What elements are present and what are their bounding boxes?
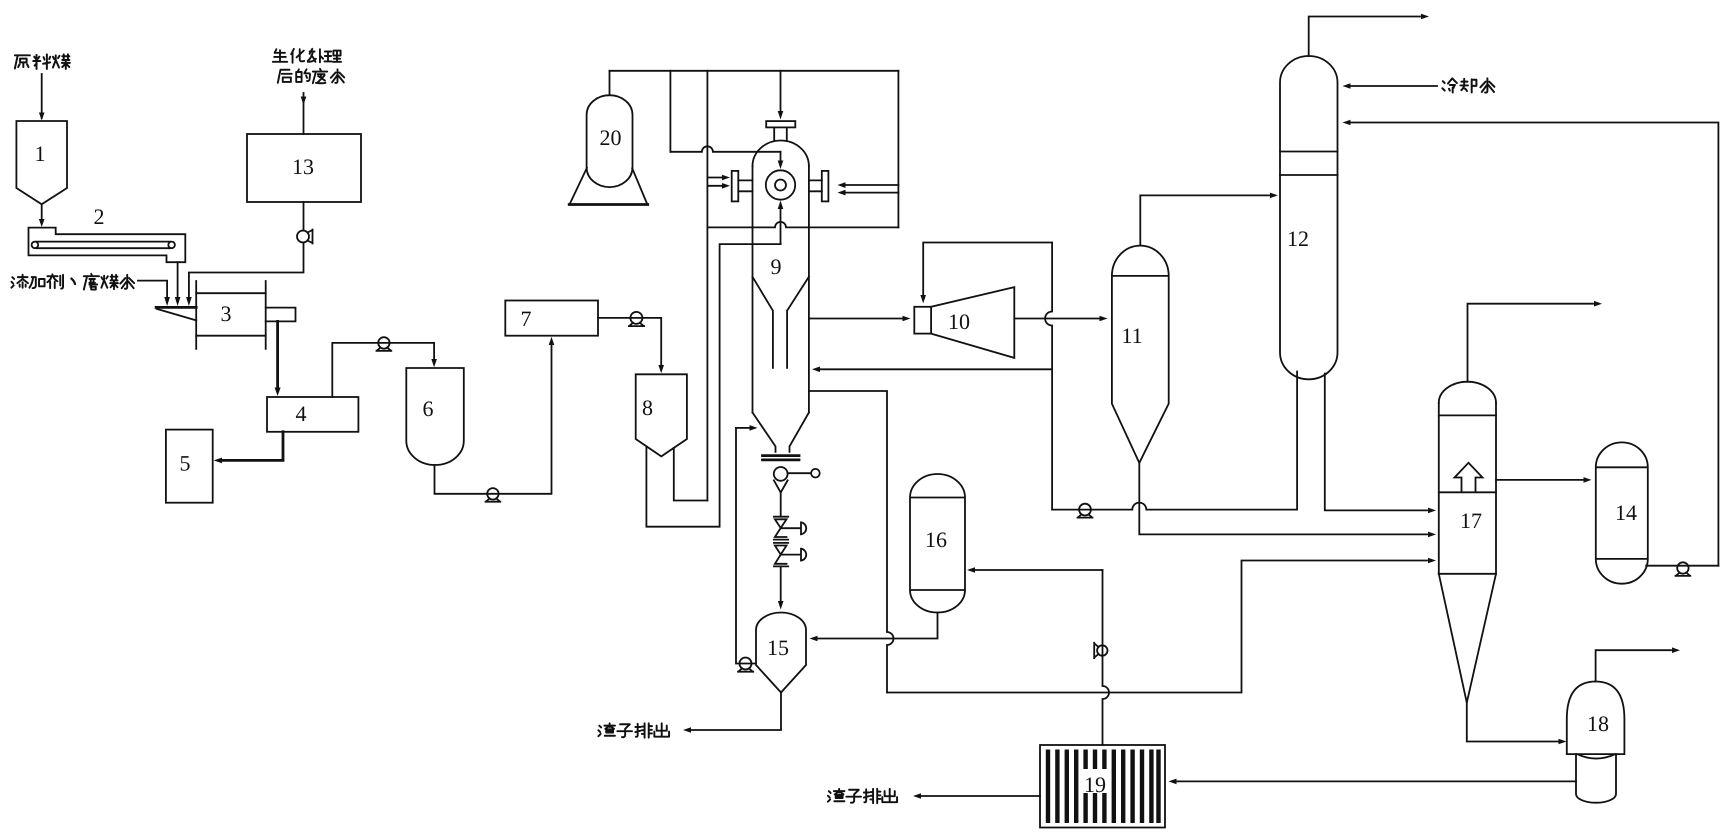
- svg-text:2: 2: [94, 204, 105, 229]
- wire: tank 7 to pump to vessel 8: [598, 318, 661, 365]
- separator 11: [1112, 246, 1169, 463]
- arrow up into burner from below: [778, 201, 784, 210]
- turbine 10 body: [931, 287, 1014, 358]
- gasifier 9 dome: [753, 141, 809, 167]
- pump between 7 and 8: [629, 312, 644, 326]
- conveyor belt lines: [37, 242, 171, 249]
- arrow into gasifier cone: [750, 425, 758, 431]
- vessel 18 dome: [1567, 682, 1625, 759]
- svg-text:16: 16: [925, 527, 947, 552]
- arrow return into 12: [1343, 120, 1351, 126]
- lock hopper 15: [756, 613, 806, 693]
- pump below tank 13: [297, 230, 313, 244]
- pump left of 15: [738, 658, 753, 672]
- wire: raw coal feed line: [41, 74, 43, 118]
- arrow into turbine inlet: [903, 316, 911, 322]
- wire: return line to gasifier: [820, 368, 1052, 370]
- arrow into vessel 14: [1584, 477, 1592, 483]
- arrow into right flange upper: [838, 182, 846, 188]
- arrow into 15 right wall: [810, 636, 818, 642]
- wire: recycle vertical with hop: [1045, 243, 1052, 510]
- wire: vessel 8 right outlet loop up: [674, 448, 708, 501]
- slag valve 1: [774, 517, 806, 540]
- wire: vessel 14 bottom to pump to riser: [1646, 565, 1718, 567]
- column 17 cone: [1439, 574, 1496, 703]
- burner circle outer: [766, 170, 795, 199]
- wire: syngas line gasifier to turbine 10: [809, 318, 902, 320]
- arrow 17 top right: [1594, 301, 1602, 307]
- wire: vessel 20 to top header: [609, 71, 611, 95]
- wire: return from pump 14 up and into 12: [1351, 123, 1718, 566]
- arrow into left flange upper: [722, 175, 730, 181]
- pump on line below 11: [1078, 504, 1093, 518]
- mill 3 end plate right: [265, 281, 267, 349]
- gasifier 9 top flange: [766, 121, 795, 127]
- vessel 18 lower drum: [1576, 754, 1616, 803]
- column 12 tray lines: [1280, 152, 1338, 176]
- wire: burner bottom line down with hop crossing: [780, 207, 782, 244]
- hopper 1: [16, 121, 67, 204]
- wire: bottom transfer line with hop, to riser: [887, 561, 1427, 693]
- arrow into gasifier right wall: [812, 367, 820, 373]
- arrow onto conveyor 2: [39, 219, 45, 227]
- arrow filter slag discharge: [913, 793, 921, 799]
- arrow into lock hopper 15: [778, 601, 784, 610]
- svg-text:8: 8: [642, 395, 653, 420]
- gasifier 9 flange stem: [774, 127, 787, 140]
- svg-text:1: 1: [35, 141, 46, 166]
- wire: column 17 top offgas: [1468, 304, 1594, 382]
- arrow slag discharge left: [683, 727, 691, 733]
- wire: mill 3 to tank 4: [276, 321, 279, 388]
- wire: stub to indicator circle: [788, 472, 812, 474]
- vessel 20: [587, 95, 633, 187]
- chute feed plate: [156, 306, 196, 309]
- arrow up into tank 7: [549, 337, 555, 345]
- gasifier right nozzle: [809, 180, 822, 191]
- chute slant: [157, 309, 196, 321]
- wire: vessel 8 left outlet loop up: [646, 244, 780, 527]
- wire: conveyor discharge: [177, 262, 179, 297]
- gasifier bottom flange: [763, 456, 800, 460]
- wire: separator 11 top to column 12: [1140, 195, 1269, 245]
- svg-text:10: 10: [948, 309, 970, 334]
- wire: stub into gasifier cone: [736, 427, 749, 429]
- wire: tank 4 to pump to vessel 6: [332, 343, 434, 397]
- wire: oxygen line with hop over vertical: [670, 146, 780, 151]
- filter 19: [1040, 745, 1165, 828]
- wire: waste water line from pump 13 to chute: [189, 243, 304, 298]
- wire: 16 bottom to lock hopper 15 with hop: [818, 613, 938, 639]
- label: cooling water 冷却水: [1442, 78, 1494, 92]
- indicator small circle: [811, 469, 820, 478]
- wire: cooling water line: [1351, 85, 1437, 87]
- wire: vessel 18 to filter 19: [1177, 780, 1576, 782]
- wire: hopper outlet: [41, 204, 43, 219]
- arrow below label: [301, 97, 307, 106]
- label: slag discharge 渣子排出: [598, 723, 669, 737]
- wire: separator 11 bottom leg: [1139, 463, 1427, 535]
- vessel 14: [1596, 442, 1648, 583]
- arrow into right flange lower: [838, 190, 846, 196]
- tank 7: [505, 301, 598, 336]
- check pump on riser: [1094, 643, 1107, 658]
- arrow into 16: [967, 567, 975, 573]
- label: 后的废水: [278, 69, 344, 83]
- svg-text:12: 12: [1287, 226, 1309, 251]
- arrow vent right: [1421, 14, 1429, 20]
- wire: header drop to top flange: [780, 71, 782, 111]
- svg-text:4: 4: [296, 401, 307, 426]
- label: raw coal 原料煤: [15, 54, 70, 69]
- wire: tank 4 to tank 5: [222, 432, 283, 461]
- svg-text:7: 7: [521, 306, 532, 331]
- arrow down to burner circle: [778, 161, 784, 170]
- label: slag discharge 渣子排出 (filter): [828, 789, 897, 803]
- wire: column 17 side to vessel 14: [1496, 479, 1583, 481]
- wire: slag line to lock hopper 15: [780, 566, 782, 601]
- arrow onto top flange: [778, 111, 784, 120]
- label 19: [1082, 769, 1108, 797]
- wire: stub to left flange upper: [707, 177, 722, 179]
- conveyor roller left: [32, 242, 39, 249]
- pump right of 14: [1676, 562, 1691, 576]
- burner circle inner: [775, 180, 786, 191]
- arrow into separator 11: [1100, 316, 1108, 322]
- arrow into tank 5: [214, 458, 222, 464]
- arrow vent right of 18: [1672, 647, 1680, 653]
- gasifier left nozzle: [738, 180, 752, 191]
- wire: waste water into tank 13: [303, 93, 305, 134]
- svg-text:9: 9: [771, 254, 782, 279]
- wire: stub to right flange upper: [846, 184, 898, 186]
- svg-text:15: 15: [767, 635, 789, 660]
- wire: column 12 bottom outlet left: [1296, 372, 1298, 509]
- wire: feed line down left of gasifier: [736, 428, 756, 664]
- svg-text:11: 11: [1121, 323, 1142, 348]
- tank 4: [267, 397, 358, 432]
- gasifier internal venturi: [753, 277, 809, 368]
- gasifier left flange bar: [732, 171, 739, 202]
- wire: column 12 bottom outlet right: [1325, 374, 1427, 511]
- wire: turbine bypass top: [923, 243, 1052, 296]
- mill 3 outlet box: [266, 308, 296, 322]
- column 12: [1280, 56, 1338, 379]
- column 17 internal lines: [1439, 415, 1496, 573]
- arrow into vessel 18: [1559, 739, 1567, 745]
- gasifier 9 shell: [753, 166, 809, 412]
- arrow into vessel 8: [658, 365, 664, 373]
- arrow into hopper 1: [39, 113, 45, 121]
- wire: line into 16 from riser: [975, 569, 1103, 571]
- wire: stub to left flange lower: [707, 185, 722, 187]
- wire: top header: [610, 70, 899, 72]
- vessel 6: [406, 368, 464, 465]
- arrow: waste water onto chute: [186, 297, 192, 306]
- conveyor 2 housing: [29, 228, 186, 263]
- vessel 8: [636, 374, 687, 456]
- mill 3 end plate left: [195, 281, 197, 349]
- svg-text:3: 3: [221, 301, 232, 326]
- arrow onto turbine inlet top: [920, 295, 926, 303]
- svg-text:19: 19: [1084, 772, 1106, 797]
- wire: vessel 6 to pump to tank 7: [435, 345, 552, 494]
- wire: filter 19 slag discharge: [921, 795, 1040, 797]
- wire: oxygen down to burner: [780, 152, 782, 160]
- wire: column 17 bottom to vessel 18: [1467, 703, 1558, 742]
- column 17 shell: [1439, 403, 1496, 574]
- arrow into vessel 6: [431, 359, 437, 367]
- wire: cross line under burner with hop: [707, 222, 898, 227]
- arrow into left flange lower: [722, 183, 730, 189]
- wire: riser down to filter 19: [1103, 570, 1110, 745]
- vessel 20 stand: [570, 168, 648, 204]
- wire: long header drop left of gasifier: [706, 71, 708, 501]
- label: biochemically treated waste water 生化处理: [273, 49, 341, 63]
- wire: header drop to burner oxygen line: [669, 71, 671, 152]
- arrow into column 17 line3: [1428, 558, 1436, 564]
- wire: stub to right flange lower: [846, 192, 898, 194]
- slag rotary valve circle: [774, 467, 788, 481]
- pump between 6 and 7: [486, 488, 501, 502]
- cone below rotary valve: [774, 480, 788, 492]
- wire: header right drop: [897, 71, 899, 228]
- scrubber vessel 16: [910, 474, 965, 613]
- tank 13: [247, 134, 361, 202]
- wire: column 12 overhead vent: [1309, 17, 1420, 57]
- svg-text:13: 13: [292, 154, 314, 179]
- gasifier right flange bar: [822, 171, 829, 202]
- conveyor roller right: [168, 242, 175, 249]
- svg-text:6: 6: [423, 396, 434, 421]
- svg-text:20: 20: [600, 125, 622, 150]
- wire: quench line gasifier wall down: [809, 391, 894, 693]
- arrow: additive onto chute: [164, 297, 170, 306]
- arrow into column 12: [1270, 193, 1278, 199]
- wire: slag line to valves: [780, 493, 782, 517]
- gasifier bottom cone: [753, 413, 809, 452]
- tank 5: [166, 430, 213, 503]
- slag valve 2: [774, 543, 806, 567]
- arrow into column 17 line1: [1428, 508, 1436, 514]
- wire: turbine outlet to separator 11: [1014, 318, 1099, 320]
- turbine 10 inlet box: [914, 307, 931, 334]
- arrow into tank 4: [275, 388, 281, 397]
- svg-text:14: 14: [1615, 500, 1637, 525]
- wire: lock hopper 15 slag out: [691, 693, 781, 731]
- arrow into column 17 line2: [1428, 532, 1436, 538]
- arrow: conveyor discharge onto chute: [175, 297, 181, 306]
- column 17 dome: [1439, 382, 1496, 403]
- arrow cooling water into 12: [1343, 83, 1351, 89]
- label: additive and milling water 添加剂、磨煤水: [11, 274, 134, 290]
- wire: additive line: [138, 281, 167, 298]
- pump between 4 and 6: [377, 337, 392, 351]
- svg-text:5: 5: [180, 451, 191, 476]
- column 17 hollow arrow internal: [1455, 463, 1483, 492]
- svg-text:17: 17: [1460, 508, 1482, 533]
- mill 3 body: [196, 293, 266, 336]
- svg-text:18: 18: [1587, 711, 1609, 736]
- wire: tank 13 outlet: [303, 202, 305, 231]
- arrow into filter 19 right: [1169, 779, 1177, 785]
- wire: vessel 18 top vent: [1596, 650, 1671, 681]
- wire: pump line 11 bottom with hop: [1052, 503, 1297, 510]
- filter 19 plates: [1048, 750, 1159, 824]
